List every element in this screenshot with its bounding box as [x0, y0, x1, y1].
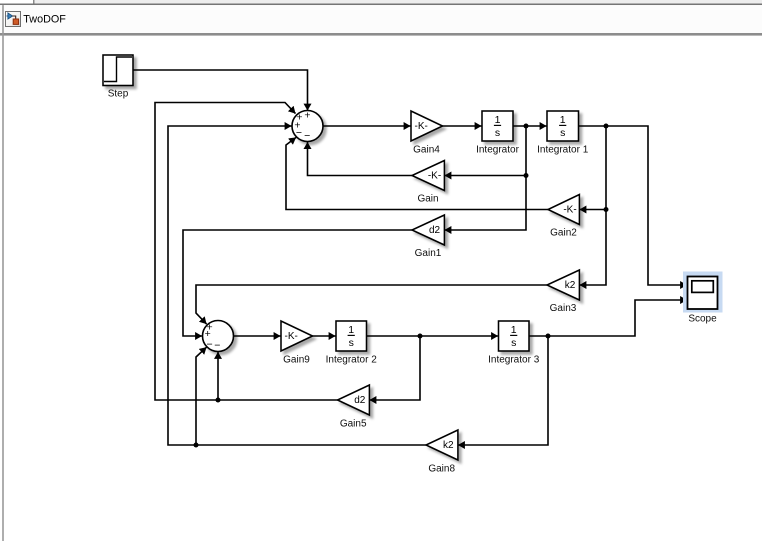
svg-text:−: −: [296, 127, 302, 139]
svg-text:−: −: [207, 339, 213, 351]
svg-text:Gain: Gain: [417, 194, 438, 205]
svg-text:1: 1: [495, 114, 501, 126]
svg-text:Gain5: Gain5: [340, 419, 367, 430]
svg-text:-K-: -K-: [428, 170, 441, 181]
svg-text:Gain4: Gain4: [413, 145, 440, 156]
svg-text:Integrator 2: Integrator 2: [326, 355, 378, 366]
svg-text:s: s: [349, 337, 354, 349]
svg-text:Integrator 3: Integrator 3: [488, 355, 540, 366]
svg-text:Gain3: Gain3: [550, 303, 577, 314]
svg-text:s: s: [560, 127, 565, 139]
svg-text:-K-: -K-: [285, 331, 298, 342]
svg-text:Gain2: Gain2: [550, 228, 577, 239]
svg-text:k2: k2: [565, 280, 576, 291]
svg-text:Integrator 1: Integrator 1: [537, 145, 589, 156]
svg-text:TwoDOF: TwoDOF: [23, 14, 66, 26]
svg-text:Gain8: Gain8: [428, 464, 455, 475]
svg-text:-K-: -K-: [415, 121, 428, 132]
svg-text:Integrator: Integrator: [476, 145, 519, 156]
svg-text:−: −: [304, 130, 310, 142]
svg-text:1: 1: [348, 324, 354, 336]
svg-text:1: 1: [511, 324, 517, 336]
svg-text:1: 1: [560, 114, 566, 126]
svg-text:s: s: [495, 127, 500, 139]
svg-text:k2: k2: [443, 440, 454, 451]
svg-text:−: −: [214, 339, 220, 351]
svg-text:d2: d2: [354, 395, 366, 406]
svg-text:+: +: [304, 109, 310, 121]
svg-text:Gain1: Gain1: [415, 248, 442, 259]
svg-text:d2: d2: [429, 225, 441, 236]
svg-text:s: s: [511, 337, 516, 349]
svg-text:Step: Step: [108, 89, 129, 100]
svg-text:-K-: -K-: [563, 204, 576, 215]
svg-text:Gain9: Gain9: [283, 355, 310, 366]
svg-text:Scope: Scope: [688, 314, 717, 325]
